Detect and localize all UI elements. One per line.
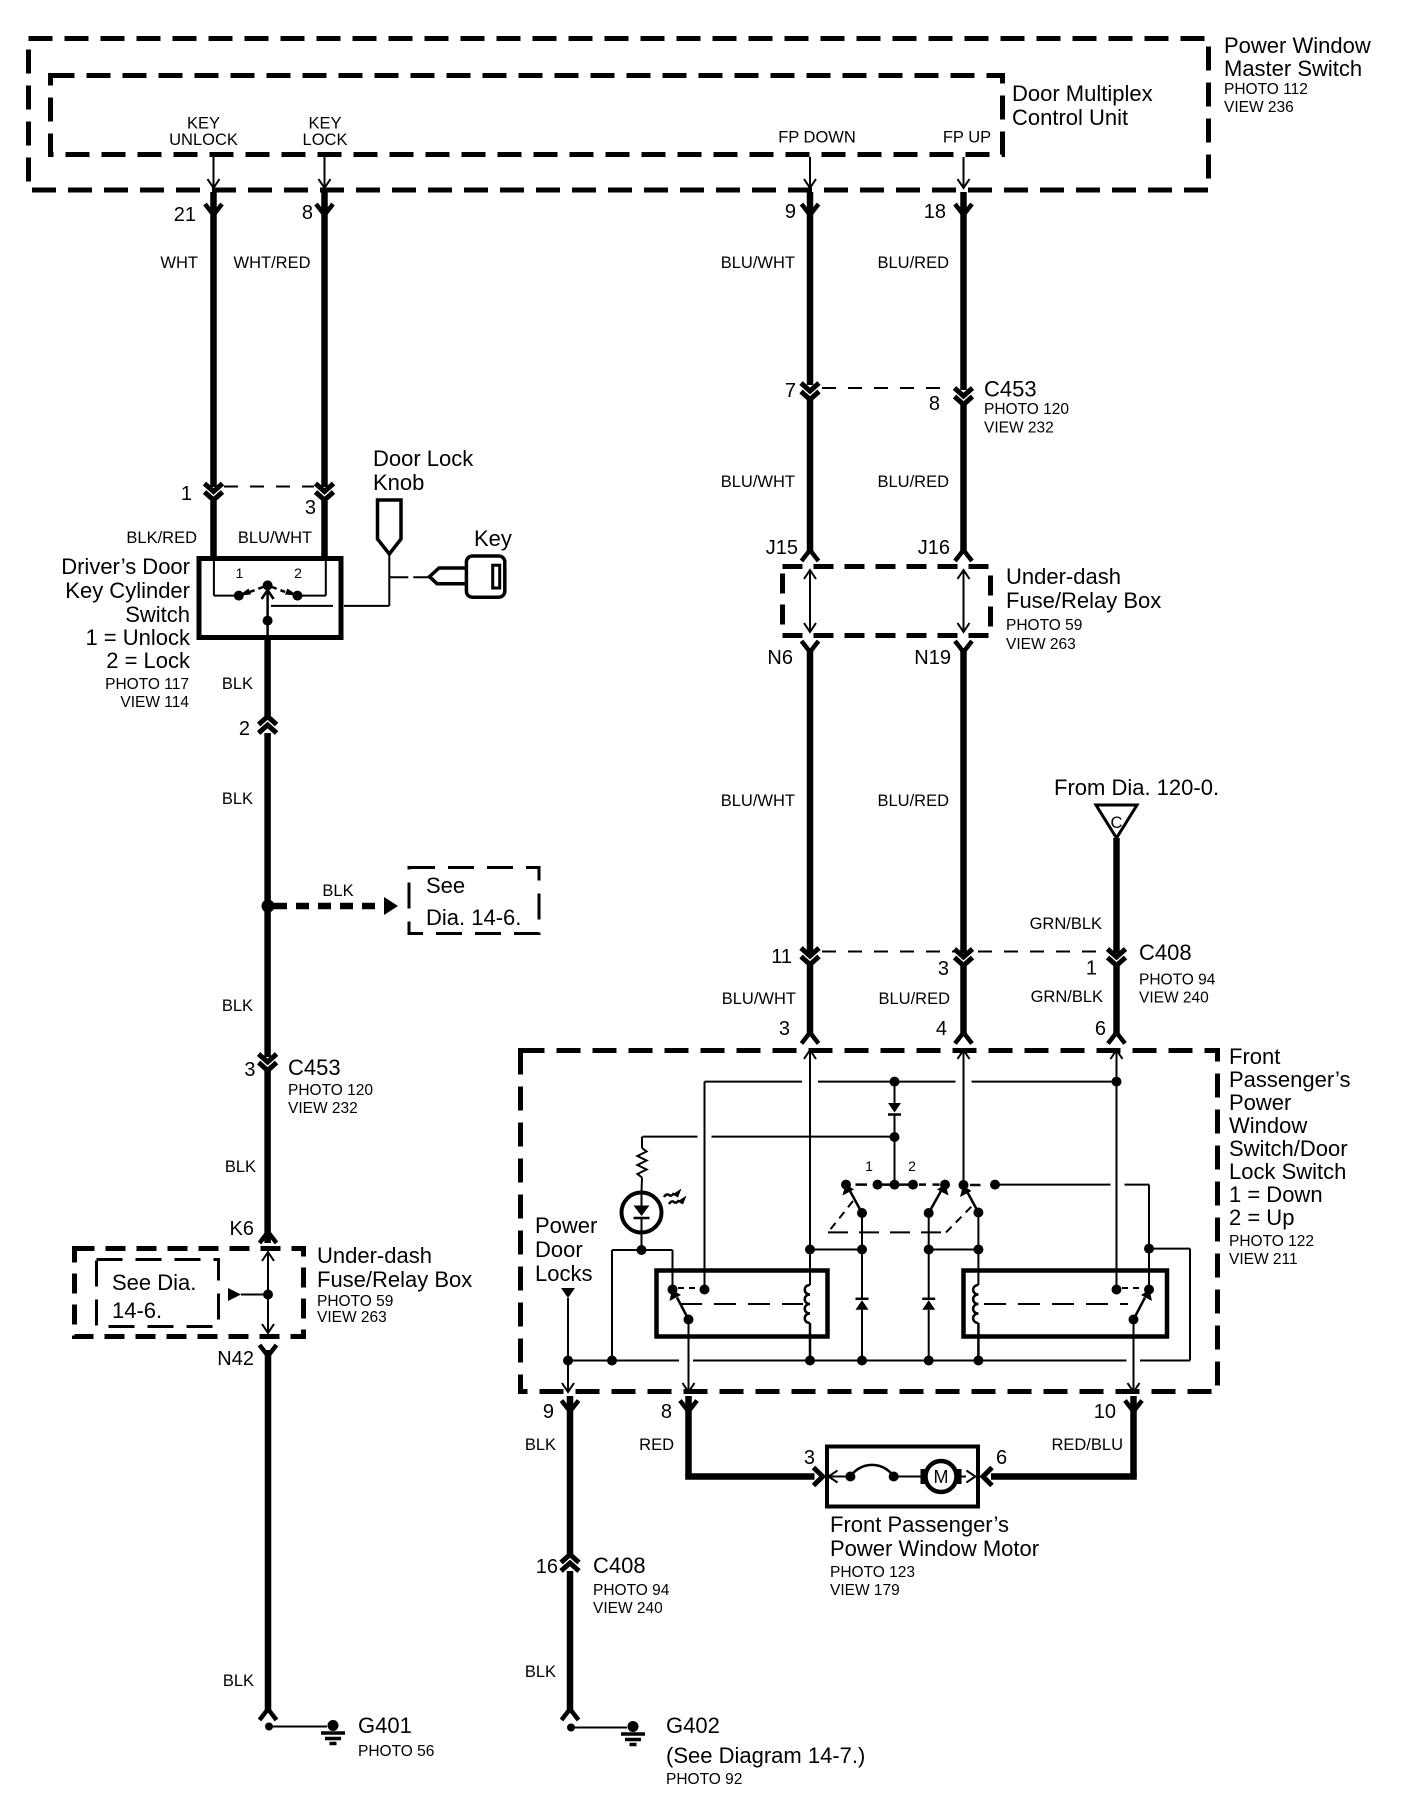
wire horizontal top bus xyxy=(705,1081,1117,1083)
svg-text:(See Diagram 14-7.): (See Diagram 14-7.) xyxy=(666,1743,865,1768)
door multiplex control unit inner box xyxy=(51,76,1003,155)
knob linkage line xyxy=(388,554,390,606)
motor connector right xyxy=(983,1468,992,1486)
connector 1 C408 xyxy=(1086,949,1126,980)
label Front Passenger's switch xyxy=(1229,1044,1350,1268)
svg-text:Passenger’s: Passenger’s xyxy=(1229,1067,1350,1092)
svg-text:8: 8 xyxy=(302,202,313,224)
triangle C from-dia symbol xyxy=(1096,805,1137,838)
svg-text:PHOTO 117: PHOTO 117 xyxy=(105,676,189,693)
wire BLU/WHT connector3 to switch xyxy=(238,501,325,558)
right relay dashed contact link xyxy=(1122,1287,1143,1289)
svg-text:See: See xyxy=(426,873,465,898)
label KEY UNLOCK xyxy=(169,115,238,150)
left relay pivot dot xyxy=(668,1285,678,1295)
svg-text:Power Window: Power Window xyxy=(1224,33,1371,58)
ground lead G402 xyxy=(562,1709,628,1732)
wire BLK pin9 to connector16 xyxy=(525,1396,570,1558)
svg-text:2 = Up: 2 = Up xyxy=(1229,1205,1294,1230)
wire arm2 down xyxy=(928,1213,930,1299)
left relay dashed contact link xyxy=(678,1287,699,1289)
exit arrow pin 9 xyxy=(562,1383,574,1392)
exit arrow pin 10 xyxy=(1128,1383,1140,1392)
diode D2 xyxy=(922,1299,935,1361)
label C453 right xyxy=(984,377,1069,437)
diode D1 xyxy=(856,1299,869,1361)
connector 16 C408 xyxy=(536,1553,670,1617)
svg-text:VIEW 236: VIEW 236 xyxy=(1224,99,1294,116)
svg-text:BLU/WHT: BLU/WHT xyxy=(721,792,795,810)
svg-text:1: 1 xyxy=(181,483,192,505)
svg-text:VIEW 240: VIEW 240 xyxy=(1139,990,1209,1007)
entry arrow pin 6 xyxy=(1111,1050,1123,1059)
svg-text:Control Unit: Control Unit xyxy=(1012,105,1128,130)
wire BLK connector2 to junction xyxy=(222,733,268,906)
svg-text:10: 10 xyxy=(1094,1401,1116,1423)
bottom rail xyxy=(568,1360,1190,1362)
junction dot diode bottom xyxy=(890,1132,900,1142)
svg-text:Front Passenger’s: Front Passenger’s xyxy=(830,1512,1009,1537)
svg-text:BLK: BLK xyxy=(222,790,253,808)
switch contact 1 dot xyxy=(234,565,244,601)
wire RED/BLU pin10 to motor xyxy=(991,1396,1137,1477)
svg-text:1 = Unlock: 1 = Unlock xyxy=(85,625,191,650)
svg-text:Master Switch: Master Switch xyxy=(1224,56,1362,81)
svg-text:C408: C408 xyxy=(593,1553,646,1578)
svg-text:VIEW 232: VIEW 232 xyxy=(984,420,1054,437)
svg-text:Fuse/Relay Box: Fuse/Relay Box xyxy=(1006,588,1161,613)
svg-text:UNLOCK: UNLOCK xyxy=(169,131,238,149)
label G401 xyxy=(358,1713,434,1760)
svg-text:3: 3 xyxy=(779,1018,790,1040)
svg-text:7: 7 xyxy=(785,380,796,402)
wire BLU/WHT N6 to connector 11 xyxy=(721,648,810,953)
connector 3 C408 xyxy=(938,949,973,980)
window switch contact row xyxy=(856,1158,981,1185)
svg-text:6: 6 xyxy=(996,1447,1007,1469)
arrow See Dia to wire xyxy=(228,1288,273,1301)
svg-text:BLK: BLK xyxy=(222,675,253,693)
left relay output wire xyxy=(688,1320,690,1391)
under-dash fuse/relay box (left) xyxy=(75,1249,304,1337)
svg-text:Under-dash: Under-dash xyxy=(317,1243,432,1268)
svg-text:Knob: Knob xyxy=(373,470,424,495)
svg-text:Switch: Switch xyxy=(125,602,190,627)
switch arm dashed to 1 xyxy=(239,587,263,596)
wire BLU/RED to pin 4 xyxy=(878,965,972,1044)
left relay box xyxy=(657,1271,828,1337)
svg-text:N19: N19 xyxy=(914,647,951,669)
svg-text:N6: N6 xyxy=(767,647,793,669)
svg-text:J16: J16 xyxy=(918,537,950,559)
left relay coil xyxy=(805,1285,810,1361)
svg-text:14-6.: 14-6. xyxy=(112,1298,162,1323)
pin K6 xyxy=(230,1218,277,1243)
entry arrow pin 4 xyxy=(958,1050,970,1059)
svg-text:GRN/BLK: GRN/BLK xyxy=(1031,988,1103,1006)
svg-text:Door Lock: Door Lock xyxy=(373,446,474,471)
svg-text:RED/BLU: RED/BLU xyxy=(1051,1436,1123,1454)
svg-text:3: 3 xyxy=(305,497,316,519)
See Dia 14-6 box (lower) xyxy=(97,1260,219,1327)
connector 7 C453 xyxy=(785,380,819,402)
svg-text:PHOTO 123: PHOTO 123 xyxy=(830,1564,915,1581)
connector 3 xyxy=(305,484,334,520)
svg-text:9: 9 xyxy=(543,1401,554,1423)
svg-text:BLU/RED: BLU/RED xyxy=(877,473,949,491)
wire GRN/BLK triangle to connector 1 xyxy=(1030,838,1117,953)
label FP DOWN xyxy=(778,129,856,147)
LED indicator xyxy=(622,1193,662,1233)
wire to left relay pivot xyxy=(672,1250,674,1290)
motor M symbol xyxy=(921,1461,976,1492)
label BLU/RED upper xyxy=(877,254,949,272)
svg-text:VIEW 240: VIEW 240 xyxy=(593,1600,663,1617)
svg-text:Dia. 14-6.: Dia. 14-6. xyxy=(426,905,521,930)
wire diode to switch pole xyxy=(894,1137,896,1185)
junction dot diode top xyxy=(890,1077,900,1087)
svg-text:C: C xyxy=(1111,814,1123,832)
pin 9 xyxy=(785,201,819,223)
svg-text:BLK: BLK xyxy=(525,1436,556,1454)
svg-text:BLK: BLK xyxy=(225,1158,256,1176)
dashed link knob to key xyxy=(389,576,429,578)
svg-text:Switch/Door: Switch/Door xyxy=(1229,1136,1348,1161)
pin N42 xyxy=(217,1345,276,1370)
svg-text:BLK/RED: BLK/RED xyxy=(126,529,197,547)
wire BLK junction to connector 3 C453 xyxy=(222,906,268,1057)
wire WHT/RED pin8 to connector 3 xyxy=(234,192,325,487)
svg-text:VIEW 263: VIEW 263 xyxy=(317,1309,387,1326)
wire BLK C453 to K6 xyxy=(225,1071,268,1243)
arrow FP DOWN output xyxy=(804,157,816,188)
front passenger power window switch box xyxy=(521,1051,1218,1392)
svg-text:3: 3 xyxy=(244,1059,255,1081)
svg-text:18: 18 xyxy=(924,201,946,223)
svg-text:FP UP: FP UP xyxy=(943,129,991,147)
svg-text:2: 2 xyxy=(239,718,250,740)
left relay arm dot xyxy=(684,1315,694,1325)
See Dia 14-6 box (upper) xyxy=(409,868,539,934)
pin 10 out xyxy=(1094,1401,1142,1424)
resistor xyxy=(637,1137,646,1192)
svg-text:2: 2 xyxy=(294,565,302,581)
label Power Door Locks xyxy=(535,1213,597,1286)
junction row y1249 dots xyxy=(805,1245,983,1255)
junction dot to See Dia 14-6 xyxy=(262,900,275,913)
svg-text:PHOTO 120: PHOTO 120 xyxy=(984,401,1069,418)
svg-text:PHOTO 94: PHOTO 94 xyxy=(593,1582,670,1599)
wire BLK/RED connector1 to switch xyxy=(126,501,213,558)
right relay contact feed dot xyxy=(1112,1285,1122,1295)
wire LED junction horizontal xyxy=(612,1249,673,1251)
svg-text:PHOTO 120: PHOTO 120 xyxy=(288,1082,373,1099)
svg-text:C408: C408 xyxy=(1139,940,1192,965)
svg-text:1: 1 xyxy=(865,1158,873,1174)
wire arm1 down xyxy=(861,1213,863,1299)
svg-text:BLK: BLK xyxy=(222,997,253,1015)
label Door Multiplex Control Unit xyxy=(1012,81,1153,130)
arrow KEY UNLOCK output xyxy=(208,157,220,188)
wire left relay feed xyxy=(704,1082,706,1290)
wire BLU/RED pin18 to connector 8 xyxy=(877,192,963,491)
power window master switch outer box xyxy=(29,39,1209,191)
svg-text:J15: J15 xyxy=(766,537,798,559)
svg-text:VIEW 179: VIEW 179 xyxy=(830,1582,900,1599)
connector link 11-3-1 xyxy=(822,951,1105,953)
svg-text:2 = Lock: 2 = Lock xyxy=(106,648,191,673)
svg-text:Door Multiplex: Door Multiplex xyxy=(1012,81,1153,106)
svg-text:BLU/WHT: BLU/WHT xyxy=(238,529,312,547)
switch pole xyxy=(262,580,274,640)
wire pin6 internal xyxy=(1116,1050,1118,1290)
svg-text:VIEW 263: VIEW 263 xyxy=(1006,636,1076,653)
wire BLU/WHT connector7 to J15 xyxy=(807,399,814,554)
left relay actuation dashed xyxy=(680,1303,803,1305)
label C408 upper xyxy=(1139,940,1216,1007)
svg-text:11: 11 xyxy=(771,946,792,968)
fuse box left internal path xyxy=(262,1252,274,1333)
label Door Lock Knob xyxy=(373,446,474,495)
svg-text:BLU/RED: BLU/RED xyxy=(878,990,950,1008)
wire LED bottom xyxy=(641,1229,643,1250)
svg-text:See Dia.: See Dia. xyxy=(112,1270,196,1295)
dashed link switch to key xyxy=(271,605,389,607)
left relay contact feed dot xyxy=(700,1285,710,1295)
svg-text:BLK: BLK xyxy=(223,1672,254,1690)
svg-text:1 = Down: 1 = Down xyxy=(1229,1182,1323,1207)
svg-text:Power: Power xyxy=(1229,1090,1291,1115)
wire BLU/RED N19 to connector 3 xyxy=(877,648,963,953)
left relay arm xyxy=(670,1290,689,1320)
svg-text:16: 16 xyxy=(536,1556,558,1578)
motor connector left xyxy=(814,1468,823,1486)
svg-text:G402: G402 xyxy=(666,1713,720,1738)
pin N19 xyxy=(914,641,972,669)
switch arm 3 (door lock) xyxy=(960,1186,978,1213)
pin 8 out xyxy=(661,1401,697,1424)
wire pin3 internal xyxy=(809,1050,811,1285)
svg-text:1: 1 xyxy=(236,565,244,581)
pin J16 xyxy=(918,537,972,561)
label Driver's Door Key Cylinder Switch xyxy=(61,554,191,711)
wire BLU/WHT pin9 to connector 7 xyxy=(721,192,810,491)
wire BLU/WHT to pin 3 xyxy=(722,964,819,1044)
wire 1149 to 1190 xyxy=(1149,1249,1190,1361)
arrow FP UP output xyxy=(958,157,970,188)
svg-text:9: 9 xyxy=(785,201,796,223)
svg-text:Power Window Motor: Power Window Motor xyxy=(830,1536,1039,1561)
svg-text:BLU/WHT: BLU/WHT xyxy=(721,254,795,272)
motor box xyxy=(804,1447,1007,1507)
switch linkage dashed xyxy=(828,1201,973,1232)
svg-text:G401: G401 xyxy=(358,1713,412,1738)
svg-text:PHOTO 59: PHOTO 59 xyxy=(317,1293,393,1310)
junction dot LED bottom xyxy=(637,1245,647,1255)
right relay output wire xyxy=(1133,1320,1135,1391)
switch terminal 1 lead xyxy=(214,561,234,596)
wire BLK connector16 to G402 xyxy=(525,1571,570,1712)
svg-text:4: 4 xyxy=(936,1018,947,1040)
label Front Passenger's Power Window Motor xyxy=(830,1512,1039,1599)
ground lead G401 xyxy=(260,1709,328,1731)
right relay arm xyxy=(1134,1290,1153,1320)
right relay coil xyxy=(973,1285,978,1361)
svg-text:8: 8 xyxy=(661,1401,672,1423)
svg-text:PHOTO 56: PHOTO 56 xyxy=(358,1743,434,1760)
svg-text:1: 1 xyxy=(1086,958,1097,980)
svg-text:PHOTO 94: PHOTO 94 xyxy=(1139,972,1216,989)
right relay arm dot xyxy=(1129,1315,1139,1325)
ground G401 symbol xyxy=(321,1720,345,1744)
wire resistor bus xyxy=(643,1136,895,1138)
svg-text:BLU/RED: BLU/RED xyxy=(877,254,949,272)
svg-text:Fuse/Relay Box: Fuse/Relay Box xyxy=(317,1267,472,1292)
key symbol xyxy=(430,556,505,597)
switch arm 2 xyxy=(929,1184,949,1213)
svg-text:VIEW 232: VIEW 232 xyxy=(288,1100,358,1117)
exit arrow pin 8 xyxy=(683,1383,695,1392)
svg-text:BLK: BLK xyxy=(322,882,353,900)
arrow KEY LOCK output xyxy=(319,157,331,188)
pin 21 xyxy=(174,204,222,226)
wire WHT pin21 to connector 1 xyxy=(160,192,213,487)
svg-text:Locks: Locks xyxy=(535,1261,592,1286)
connector 1 xyxy=(181,483,223,505)
switch arm dashed to 2 xyxy=(272,587,298,596)
switch contact 2 dot xyxy=(293,565,303,601)
dashed BLK branch to See Dia 14-6 xyxy=(274,882,398,915)
power door locks arrow xyxy=(561,1288,575,1390)
svg-text:BLU/WHT: BLU/WHT xyxy=(722,990,796,1008)
fuse box path J15-N6 xyxy=(804,570,816,632)
svg-text:KEY: KEY xyxy=(187,115,220,133)
wire link 810-862 xyxy=(810,1249,862,1251)
label KEY LOCK xyxy=(303,115,348,150)
junction dot pin6 bus xyxy=(1112,1077,1122,1087)
driver's door key cylinder switch box xyxy=(199,559,341,638)
switch arm dots xyxy=(857,1208,983,1219)
svg-text:2: 2 xyxy=(908,1158,916,1174)
svg-text:RED: RED xyxy=(639,1436,674,1454)
ground G402 symbol xyxy=(621,1721,645,1745)
svg-text:PHOTO 112: PHOTO 112 xyxy=(1224,81,1308,98)
svg-text:VIEW 114: VIEW 114 xyxy=(120,694,189,711)
svg-text:3: 3 xyxy=(804,1447,815,1469)
label G402 xyxy=(666,1713,865,1788)
svg-text:Door: Door xyxy=(535,1237,583,1262)
connector link 7-8 xyxy=(822,387,952,389)
svg-text:GRN/BLK: GRN/BLK xyxy=(1030,915,1102,933)
svg-text:VIEW 211: VIEW 211 xyxy=(1229,1251,1298,1268)
entry arrow pin 3 xyxy=(804,1050,816,1059)
pin N6 xyxy=(767,641,818,669)
connector 8 C453 xyxy=(929,388,973,415)
right relay box xyxy=(964,1271,1168,1337)
svg-text:6: 6 xyxy=(1095,1018,1106,1040)
connector 2 xyxy=(239,717,277,741)
wire RED pin8 to motor xyxy=(639,1396,814,1477)
svg-text:From Dia. 120-0.: From Dia. 120-0. xyxy=(1054,775,1219,800)
switch arm 1 xyxy=(843,1184,863,1213)
wire arm3 down to right coil xyxy=(977,1213,979,1286)
svg-text:BLU/WHT: BLU/WHT xyxy=(721,473,795,491)
diode D3 xyxy=(888,1082,901,1137)
LED emission arrows xyxy=(664,1189,687,1205)
svg-text:BLU/RED: BLU/RED xyxy=(877,792,949,810)
pin 9 out xyxy=(543,1401,579,1424)
connector link 1-3 xyxy=(224,486,314,488)
door lock knob symbol xyxy=(378,500,402,554)
under-dash fuse/relay box (right) xyxy=(783,567,991,636)
motor brush path xyxy=(829,1465,921,1483)
pin 18 xyxy=(924,201,972,223)
svg-text:8: 8 xyxy=(929,393,940,415)
svg-text:C453: C453 xyxy=(984,377,1037,402)
svg-text:C453: C453 xyxy=(288,1055,341,1080)
connector 3 C453 xyxy=(244,1054,373,1117)
pin 8 xyxy=(302,202,333,224)
label Power Window Master Switch xyxy=(1224,33,1371,116)
svg-text:Under-dash: Under-dash xyxy=(1006,564,1121,589)
right relay actuation dashed xyxy=(984,1303,1128,1305)
svg-text:Front: Front xyxy=(1229,1044,1280,1069)
svg-text:N42: N42 xyxy=(217,1348,254,1370)
label FP UP xyxy=(943,129,991,147)
wire to rail from LED-left xyxy=(611,1250,613,1361)
svg-text:M: M xyxy=(934,1467,949,1487)
svg-text:PHOTO 92: PHOTO 92 xyxy=(666,1771,742,1788)
fuse box path J16-N19 xyxy=(958,570,970,632)
label Under-dash Fuse/Relay Box (right) xyxy=(1006,564,1161,653)
label Key xyxy=(474,526,512,551)
switch terminal 2 lead xyxy=(302,561,326,596)
label BLU/WHT upper xyxy=(721,254,795,272)
wire GRN/BLK to pin 6 xyxy=(1031,965,1125,1044)
junction dot 1149 xyxy=(1144,1244,1154,1254)
svg-text:WHT/RED: WHT/RED xyxy=(234,254,311,272)
svg-text:21: 21 xyxy=(174,204,196,226)
svg-text:Key: Key xyxy=(474,526,512,551)
bottom rail dots xyxy=(563,1356,983,1366)
wire link 929-979 xyxy=(929,1249,979,1251)
svg-text:FP DOWN: FP DOWN xyxy=(778,129,856,147)
wire BLK N42 to G401 xyxy=(223,1350,268,1712)
svg-text:K6: K6 xyxy=(230,1218,254,1240)
connector 11 C408 xyxy=(771,946,819,968)
svg-text:Window: Window xyxy=(1229,1113,1307,1138)
svg-text:WHT: WHT xyxy=(160,254,198,272)
wire BLK switch to connector 2 xyxy=(222,640,268,720)
svg-text:PHOTO 122: PHOTO 122 xyxy=(1229,1233,1314,1250)
svg-text:BLK: BLK xyxy=(525,1663,556,1681)
svg-text:PHOTO 59: PHOTO 59 xyxy=(1006,617,1082,634)
label Under-dash Fuse/Relay Box (left) xyxy=(317,1243,472,1326)
switch contact dots xyxy=(841,1180,1000,1190)
pin J15 xyxy=(766,537,819,561)
svg-text:KEY: KEY xyxy=(308,115,341,133)
svg-text:Lock Switch: Lock Switch xyxy=(1229,1159,1346,1184)
svg-text:Driver’s Door: Driver’s Door xyxy=(61,554,190,579)
label From Dia. 120-0. xyxy=(1054,775,1219,800)
svg-text:Power: Power xyxy=(535,1213,597,1238)
wire door-lock output xyxy=(995,1185,1149,1290)
svg-text:LOCK: LOCK xyxy=(303,131,348,149)
svg-text:3: 3 xyxy=(938,958,949,980)
wire pin4 internal xyxy=(963,1050,965,1185)
right relay pivot dot xyxy=(1144,1285,1154,1295)
svg-text:Key Cylinder: Key Cylinder xyxy=(65,578,190,603)
